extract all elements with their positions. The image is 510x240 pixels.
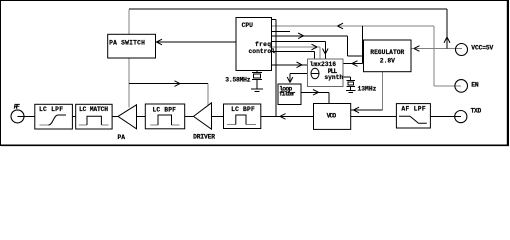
- svg-text:AF LPF: AF LPF: [401, 105, 425, 112]
- svg-text:LC MATCH: LC MATCH: [79, 106, 108, 113]
- svg-text:TXD: TXD: [471, 108, 482, 115]
- svg-text:VCO: VCO: [327, 113, 337, 120]
- svg-text:DRIVER: DRIVER: [193, 133, 215, 140]
- svg-text:filter: filter: [279, 90, 296, 97]
- svg-text:2.8V: 2.8V: [380, 58, 395, 65]
- svg-text:RF: RF: [14, 104, 20, 111]
- svg-text:PA SWITCH: PA SWITCH: [109, 40, 145, 47]
- svg-text:LC BPF: LC BPF: [231, 106, 255, 113]
- svg-text:CPU: CPU: [242, 22, 254, 29]
- svg-text:control: control: [249, 48, 276, 55]
- svg-text:LC LPF: LC LPF: [39, 106, 63, 113]
- svg-text:3.58MHz: 3.58MHz: [225, 77, 250, 84]
- svg-text:PA: PA: [118, 134, 126, 141]
- svg-text:synth: synth: [324, 74, 343, 81]
- svg-text:13MHz: 13MHz: [358, 85, 377, 92]
- svg-text:LC BPF: LC BPF: [153, 107, 177, 114]
- svg-text:EN: EN: [471, 81, 479, 88]
- svg-text:REGULATOR: REGULATOR: [370, 49, 404, 56]
- svg-text:VCC=5V: VCC=5V: [471, 45, 493, 52]
